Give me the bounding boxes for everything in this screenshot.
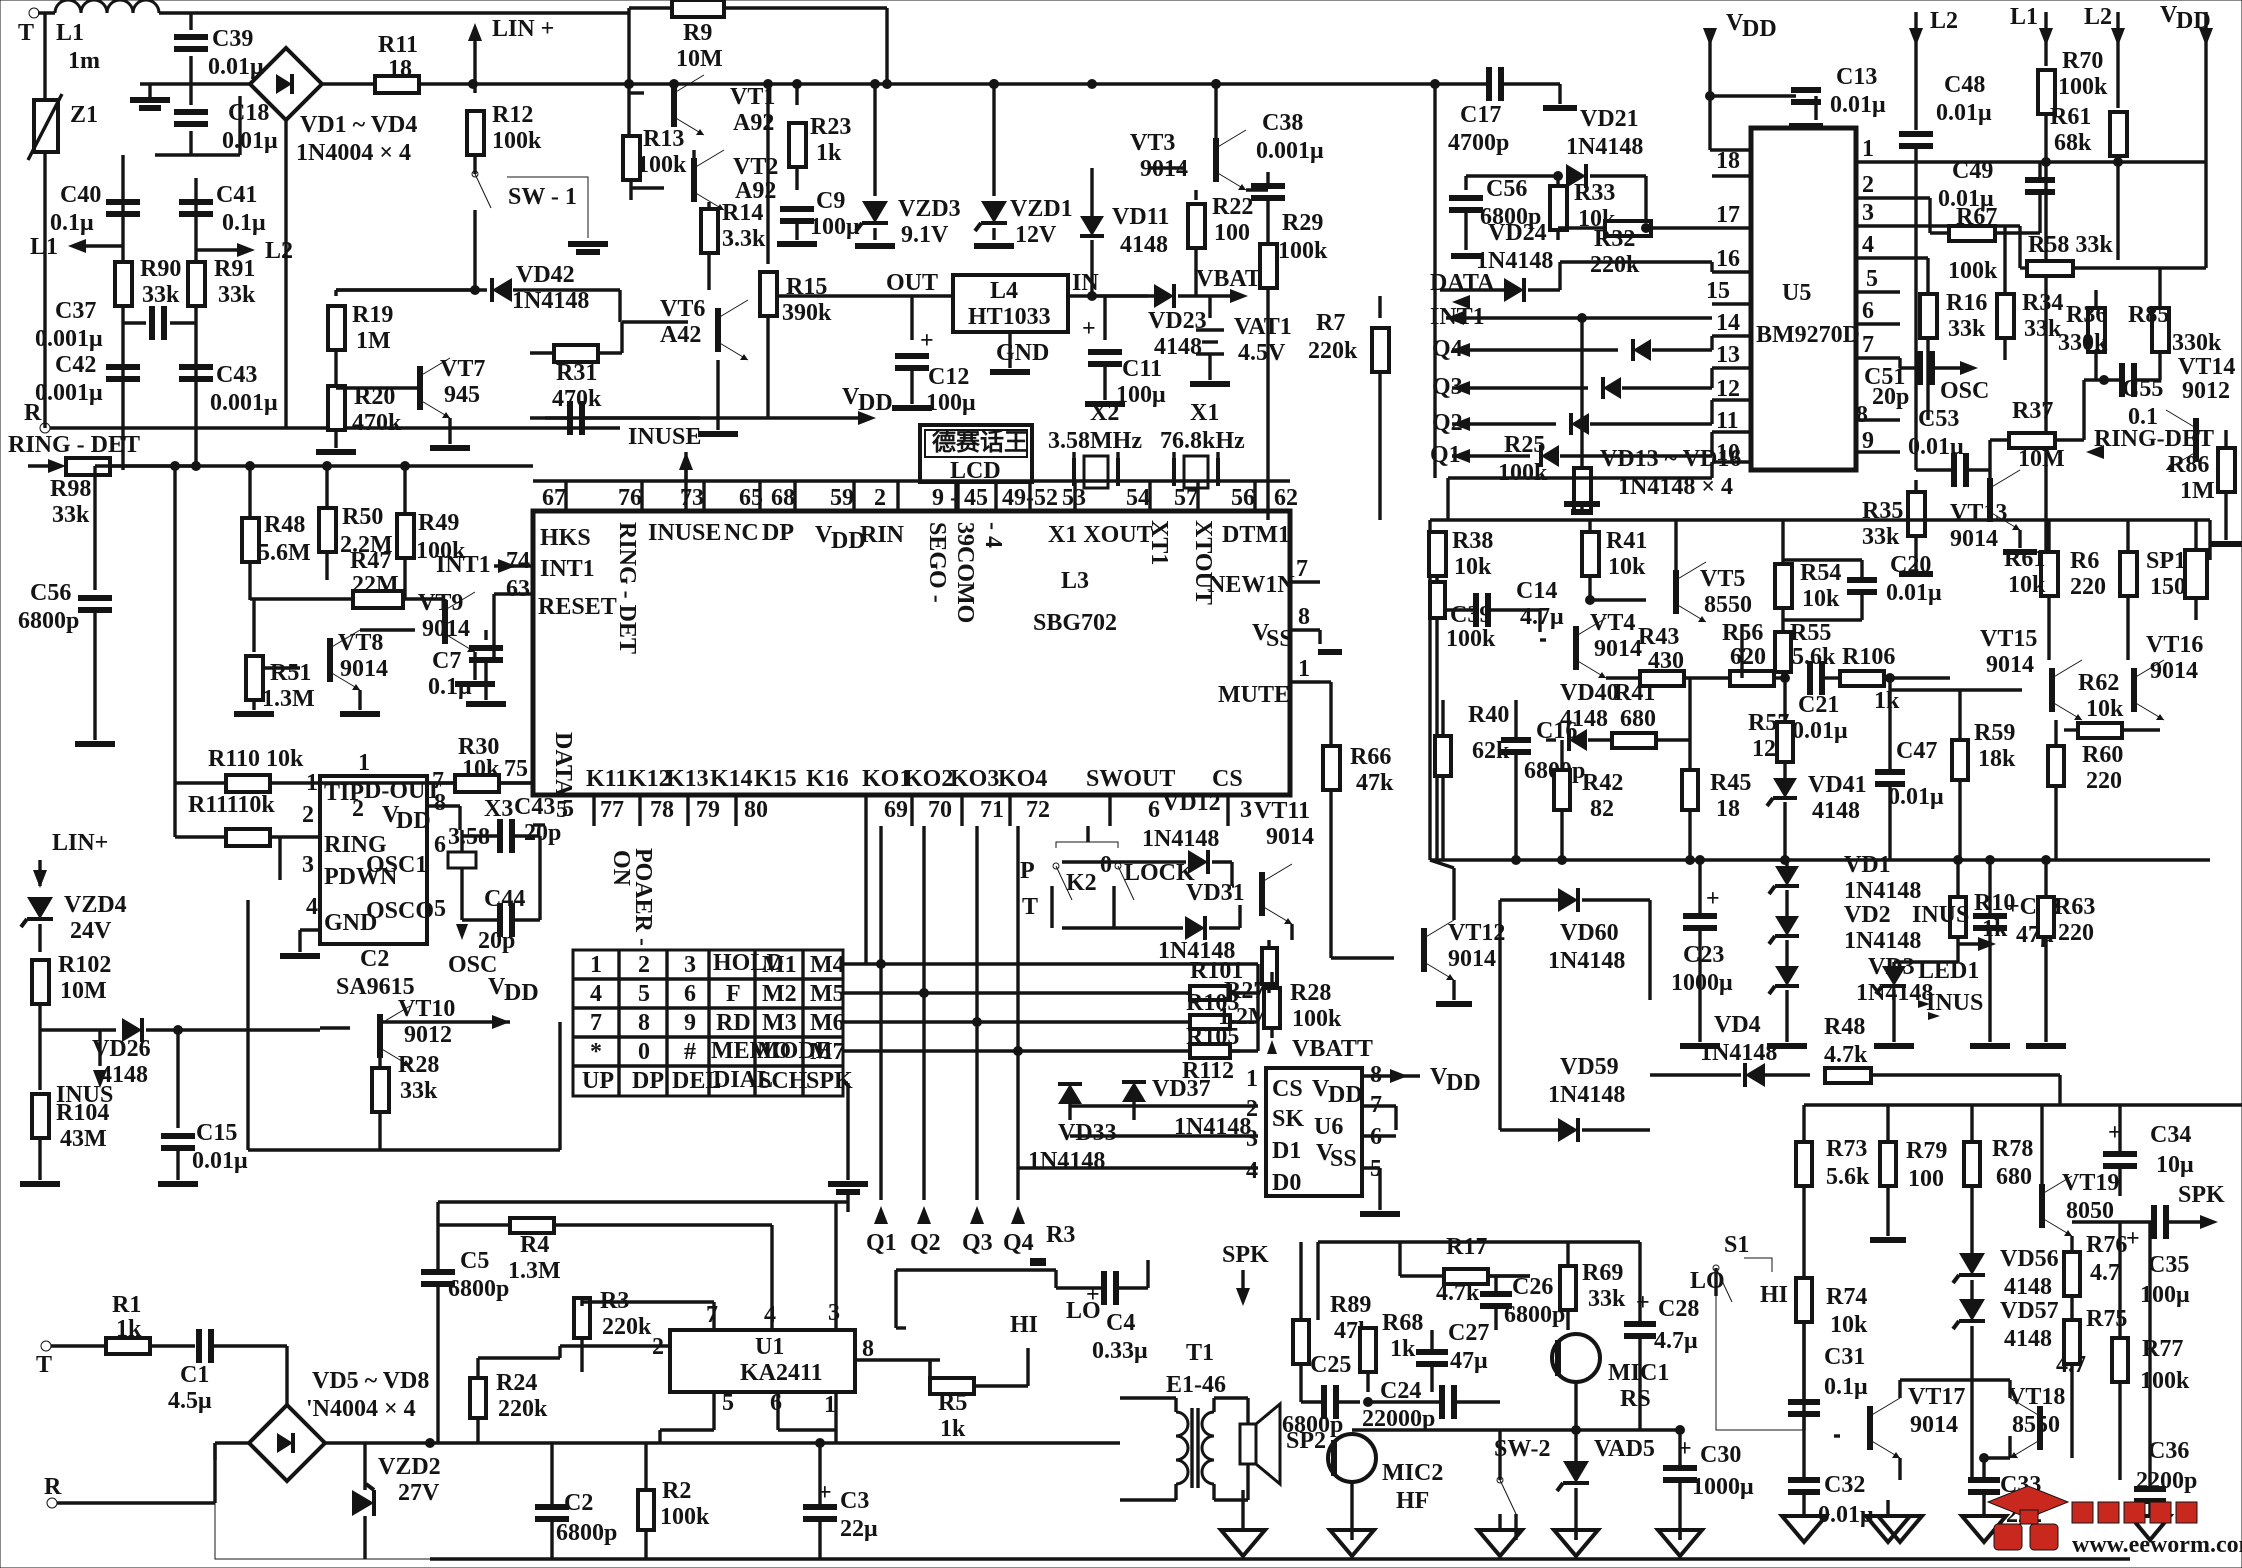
svg-text:100k: 100k (1498, 460, 1548, 486)
wire C25 row (1301, 1400, 1322, 1403)
svg-text:C42: C42 (55, 352, 96, 378)
wire U5 pin1 row (1900, 160, 2206, 163)
svg-text:VT2: VT2 (733, 154, 778, 180)
svg-text:VZD2: VZD2 (378, 1454, 441, 1480)
svg-text:220k: 220k (1590, 252, 1640, 278)
svg-text:INUS: INUS (1926, 990, 1983, 1016)
svg-text:70: 70 (928, 797, 952, 823)
svg-text:INT1: INT1 (540, 556, 595, 582)
resistor R98 (66, 458, 110, 475)
svg-text:5: 5 (434, 896, 446, 922)
svg-text:HKS: HKS (540, 525, 591, 551)
svg-text:F: F (726, 981, 741, 1007)
svg-text:T1: T1 (1186, 1340, 1214, 1366)
svg-text:0.01μ: 0.01μ (222, 128, 278, 154)
svg-text:- 4: - 4 (980, 522, 1006, 548)
svg-text:R11110k: R11110k (188, 792, 275, 818)
svg-text:R43: R43 (1638, 624, 1679, 650)
svg-text:SS: SS (1330, 1146, 1357, 1172)
svg-text:VT4: VT4 (1590, 610, 1635, 636)
svg-text:KA2411: KA2411 (740, 1360, 823, 1386)
capacitor C41 (179, 199, 213, 205)
svg-text:GND: GND (996, 340, 1049, 366)
resistor R13 (623, 136, 640, 180)
svg-text:C2: C2 (360, 946, 389, 972)
svg-text:39COMO: 39COMO (952, 522, 978, 623)
svg-text:9014: 9014 (1594, 636, 1642, 662)
svg-text:R73: R73 (1826, 1136, 1867, 1162)
svg-text:15: 15 (1706, 278, 1730, 304)
capacitor C44 (497, 903, 503, 937)
wire top-left T rail (38, 11, 55, 14)
bridge rectifier VD1~VD4 (250, 48, 322, 120)
arrow Q2 (917, 1206, 931, 1224)
svg-text:VD56: VD56 (2000, 1246, 2059, 1272)
svg-text:C56: C56 (1486, 176, 1527, 202)
svg-text:2: 2 (874, 485, 886, 511)
svg-text:5.6M: 5.6M (258, 540, 311, 566)
svg-text:C49: C49 (1952, 158, 1993, 184)
svg-text:VD2: VD2 (1844, 902, 1891, 928)
svg-text:71: 71 (980, 797, 1004, 823)
resistor SP1 (2185, 550, 2207, 598)
svg-text:DD: DD (504, 980, 539, 1006)
node T2 terminal (41, 1341, 51, 1351)
svg-text:56: 56 (1231, 485, 1255, 511)
svg-text:100k: 100k (492, 128, 542, 154)
svg-text:VD4: VD4 (1714, 1012, 1761, 1038)
svg-text:5: 5 (722, 1390, 734, 1416)
svg-text:20p: 20p (524, 820, 561, 846)
svg-text:1N4148: 1N4148 (1142, 826, 1219, 852)
svg-text:1000μ: 1000μ (1671, 970, 1733, 996)
resistor R35 (1914, 480, 1917, 492)
watermark text red (2072, 1502, 2197, 1523)
svg-text:C14: C14 (1516, 578, 1557, 604)
svg-text:VD33: VD33 (1058, 1120, 1117, 1146)
pin stubs U5 left (1712, 174, 1751, 177)
svg-text:SW-2: SW-2 (1494, 1436, 1550, 1462)
svg-text:X1: X1 (1190, 400, 1219, 426)
capacitor C56 left (93, 466, 96, 590)
svg-text:C21: C21 (1798, 692, 1839, 718)
svg-text:DD: DD (1328, 1082, 1363, 1108)
svg-text:33k: 33k (142, 282, 180, 308)
svg-text:73: 73 (680, 485, 704, 511)
diode VD11 (1090, 168, 1093, 216)
svg-text:C25: C25 (1310, 1352, 1351, 1378)
svg-text:R40: R40 (1468, 702, 1509, 728)
svg-text:VD1: VD1 (1844, 852, 1891, 878)
svg-text:A42: A42 (660, 322, 701, 348)
svg-text:4: 4 (1246, 1158, 1258, 1184)
arrow L2 right (196, 248, 238, 251)
svg-text:R: R (44, 1474, 62, 1500)
svg-text:INT1: INT1 (436, 552, 491, 578)
node T terminal (29, 8, 39, 18)
svg-text:R22: R22 (1212, 194, 1253, 220)
svg-text:DP: DP (762, 520, 794, 546)
wire bridge output (325, 1441, 430, 1444)
svg-text:DATA: DATA (550, 732, 576, 797)
transistor VT2 A92 (691, 158, 697, 202)
svg-text:100k: 100k (2058, 74, 2108, 100)
svg-text:1N4004 × 4: 1N4004 × 4 (296, 140, 411, 166)
svg-text:VZD1: VZD1 (1010, 196, 1073, 222)
svg-text:7: 7 (590, 1010, 602, 1036)
resistor R20 (328, 386, 345, 430)
svg-text:1.3M: 1.3M (508, 1258, 561, 1284)
wire matrix cross verticals (864, 826, 867, 964)
svg-text:2: 2 (302, 802, 314, 828)
svg-text:1: 1 (1246, 1066, 1258, 1092)
svg-text:+: + (920, 328, 934, 354)
svg-text:72: 72 (1026, 797, 1050, 823)
svg-text:VAD5: VAD5 (1594, 1436, 1655, 1462)
wire mic bottom rail (1352, 1428, 1680, 1431)
LCD box (920, 425, 1032, 482)
svg-text:R51: R51 (270, 660, 311, 686)
svg-text:330k: 330k (2058, 330, 2108, 356)
svg-text:1: 1 (358, 750, 370, 776)
svg-text:4.7μ: 4.7μ (1654, 1328, 1698, 1354)
resistor R19 (334, 290, 337, 296)
svg-text:Q1: Q1 (866, 1230, 897, 1256)
svg-text:9014: 9014 (2150, 658, 2198, 684)
svg-text:LO: LO (1690, 1268, 1725, 1294)
svg-text:X2: X2 (1090, 400, 1119, 426)
svg-text:R41: R41 (1614, 680, 1655, 706)
svg-text:RS: RS (1620, 1386, 1651, 1412)
svg-text:C56: C56 (30, 580, 71, 606)
wire OSC column (2082, 380, 2085, 440)
svg-text:33k: 33k (400, 1078, 438, 1104)
svg-text:HF: HF (1396, 1488, 1429, 1514)
svg-text:78: 78 (650, 797, 674, 823)
svg-text:VT10: VT10 (398, 996, 455, 1022)
svg-text:R9: R9 (683, 20, 712, 46)
capacitor C12 (910, 296, 913, 340)
svg-text:CS: CS (1272, 1076, 1303, 1102)
svg-text:10k: 10k (2008, 572, 2046, 598)
svg-text:VD13 ~ VD16: VD13 ~ VD16 (1600, 446, 1741, 472)
svg-text:67: 67 (542, 485, 566, 511)
svg-text:1: 1 (1862, 136, 1874, 162)
svg-text:77: 77 (600, 797, 624, 823)
svg-text:100k: 100k (1948, 258, 1998, 284)
svg-text:LIN +: LIN + (492, 16, 554, 42)
diode VD16 (1541, 445, 1559, 467)
svg-text:R89: R89 (1330, 1292, 1371, 1318)
svg-text:+: + (1086, 1282, 1100, 1308)
svg-text:1: 1 (1298, 656, 1310, 682)
op-amp U L3 SBG702 box (533, 511, 1290, 795)
varistor Z1 (43, 13, 46, 100)
svg-text:9014: 9014 (1910, 1412, 1958, 1438)
svg-text:R25: R25 (1504, 432, 1545, 458)
svg-text:3.58MHz: 3.58MHz (1048, 428, 1142, 454)
svg-text:R104: R104 (56, 1100, 109, 1126)
svg-text:SWOUT: SWOUT (1086, 766, 1175, 792)
svg-text:33k: 33k (218, 282, 256, 308)
svg-text:24V: 24V (70, 918, 112, 944)
transistor VT9 9014 (442, 600, 448, 644)
transistor VT8 9014 (327, 638, 333, 682)
svg-text:U1: U1 (755, 1334, 784, 1360)
svg-text:74: 74 (506, 548, 530, 574)
svg-text:R6: R6 (2070, 548, 2099, 574)
svg-text:HI: HI (1010, 1312, 1038, 1338)
svg-text:KO3: KO3 (950, 766, 999, 792)
svg-text:VT5: VT5 (1700, 566, 1745, 592)
resistor R91 (188, 262, 205, 306)
wire mic region top (1318, 1240, 1640, 1243)
svg-text:K12: K12 (628, 766, 671, 792)
svg-text:L3: L3 (1061, 568, 1089, 594)
keypad matrix table (573, 950, 843, 1096)
crystal X3 (448, 852, 476, 868)
transistor VT5 8550 (1673, 570, 1679, 614)
wire VDD row mid (545, 416, 860, 419)
resistor R104 (38, 1030, 41, 1090)
svg-text:18k: 18k (1978, 746, 2016, 772)
svg-text:150: 150 (2150, 574, 2186, 600)
svg-text:VT17: VT17 (1908, 1384, 1965, 1410)
svg-text:DTM1: DTM1 (1222, 522, 1290, 548)
svg-text:K13: K13 (666, 766, 709, 792)
wire C4 to SPK (1146, 1260, 1149, 1288)
capacitor C11 (1103, 296, 1106, 340)
svg-text:X3: X3 (484, 796, 513, 822)
op-amp C2 SA9615 box (320, 776, 427, 944)
op-amp U6 box (1266, 1068, 1362, 1196)
svg-text:9.1V: 9.1V (901, 222, 949, 248)
svg-text:C1: C1 (180, 1362, 209, 1388)
op-amp U1 KA2411 box (670, 1330, 855, 1392)
capacitor C43 (179, 364, 213, 370)
svg-text:13: 13 (1716, 342, 1740, 368)
svg-text:33k: 33k (1588, 1286, 1626, 1312)
svg-text:0.01μ: 0.01μ (1792, 718, 1848, 744)
svg-text:680: 680 (1996, 1164, 2032, 1190)
svg-text:C36: C36 (2148, 1438, 2189, 1464)
transistor VT6 A42 (715, 308, 721, 352)
svg-text:C3: C3 (840, 1488, 869, 1514)
svg-text:R32: R32 (1594, 226, 1635, 252)
svg-text:100: 100 (1214, 220, 1250, 246)
wire bridge left loop (213, 1443, 216, 1460)
svg-text:C30: C30 (1700, 1442, 1741, 1468)
wire VDD top arrow U5 (1708, 30, 1711, 150)
svg-text:1N4148: 1N4148 (1028, 1148, 1105, 1174)
resistor R16 (1920, 294, 1937, 338)
svg-text:14: 14 (1716, 310, 1740, 336)
capacitor C21 and R106 (1807, 661, 1813, 695)
svg-text:18: 18 (1716, 796, 1740, 822)
svg-text:22M: 22M (352, 572, 399, 598)
svg-text:1N4148: 1N4148 (1700, 1040, 1777, 1066)
op-amp U5 BM9270D box (1751, 128, 1856, 470)
svg-text:5: 5 (1866, 266, 1878, 292)
svg-text:8: 8 (1298, 604, 1310, 630)
svg-text:DD: DD (1446, 1070, 1481, 1096)
speaker SP2 (1240, 1424, 1256, 1464)
svg-text:C53: C53 (1918, 406, 1959, 432)
zener VZD3 (873, 84, 876, 196)
switch S1 lower wire (1714, 1268, 1717, 1296)
svg-text:1000μ: 1000μ (1692, 1474, 1754, 1500)
svg-text:5.6k: 5.6k (1826, 1164, 1870, 1190)
svg-text:INUS: INUS (1912, 902, 1969, 928)
svg-text:4.5V: 4.5V (1238, 340, 1286, 366)
svg-text:R33: R33 (1574, 180, 1615, 206)
resistor R42 (1554, 770, 1570, 810)
svg-text:100k: 100k (2140, 1368, 2190, 1394)
svg-text:R91: R91 (214, 256, 255, 282)
svg-text:R14: R14 (722, 200, 763, 226)
resistor R102 (32, 960, 49, 1004)
capacitor C15 (176, 1030, 179, 1128)
wire C5 top loop (438, 1200, 848, 1203)
svg-text:OSC: OSC (1940, 378, 1989, 404)
switch S1 wires (1744, 1258, 1772, 1272)
svg-text:VD37: VD37 (1152, 1076, 1211, 1102)
wire amp internals (1898, 1380, 1901, 1398)
svg-text:+: + (1082, 316, 1096, 342)
svg-text:SK: SK (1272, 1106, 1304, 1132)
svg-text:1k: 1k (940, 1416, 966, 1442)
svg-text:3: 3 (684, 952, 696, 978)
svg-text:POAER -: POAER - (630, 848, 656, 946)
svg-text:10M: 10M (676, 46, 723, 72)
svg-text:SPK: SPK (2178, 1182, 2225, 1208)
svg-text:C13: C13 (1836, 64, 1877, 90)
wire keypad row buses (843, 962, 1240, 965)
diode VD13 (1633, 339, 1651, 361)
svg-text:R86: R86 (2168, 452, 2209, 478)
svg-text:5.6k: 5.6k (1792, 644, 1836, 670)
svg-text:3.3k: 3.3k (722, 226, 766, 252)
svg-text:76: 76 (618, 485, 642, 511)
svg-text:10k: 10k (1802, 586, 1840, 612)
svg-text:德赛话王: 德赛话王 (932, 428, 1028, 456)
svg-text:C31: C31 (1824, 1344, 1865, 1370)
svg-text:R13: R13 (643, 126, 684, 152)
svg-text:12V: 12V (1015, 222, 1057, 248)
resistor R47 (353, 591, 403, 608)
svg-text:C44: C44 (484, 886, 525, 912)
resistor R28 100k (1264, 988, 1280, 1028)
svg-text:C11: C11 (1122, 356, 1162, 382)
svg-text:1M: 1M (356, 328, 391, 354)
svg-text:R47: R47 (350, 548, 391, 574)
svg-text:620: 620 (1730, 644, 1766, 670)
svg-text:1N4148: 1N4148 (512, 288, 589, 314)
wire mic vdd rail (1430, 1390, 1433, 1393)
svg-text:C39: C39 (212, 26, 253, 52)
capacitor C9 (780, 206, 814, 212)
svg-text:DD: DD (858, 390, 893, 416)
svg-text:Q4: Q4 (1003, 1230, 1034, 1256)
svg-text:VD5 ~ VD8: VD5 ~ VD8 (312, 1368, 429, 1394)
transistor VT3 9014 (1213, 138, 1219, 182)
arrow Q4 (1011, 1206, 1025, 1224)
svg-text:470k: 470k (352, 410, 402, 436)
svg-text:54: 54 (1126, 485, 1150, 511)
svg-text:4148: 4148 (1812, 798, 1860, 824)
svg-text:VT12: VT12 (1448, 920, 1505, 946)
svg-text:80: 80 (744, 797, 768, 823)
svg-text:16: 16 (1716, 246, 1740, 272)
svg-text:76.8kHz: 76.8kHz (1160, 428, 1245, 454)
svg-text:27V: 27V (398, 1480, 440, 1506)
wire VT17-VT18 join (1900, 1378, 2010, 1381)
svg-text:1: 1 (306, 770, 318, 796)
svg-text:43M: 43M (60, 1126, 107, 1152)
svg-text:+: + (1706, 886, 1720, 912)
svg-text:M4: M4 (810, 952, 845, 978)
svg-text:68: 68 (771, 485, 795, 511)
diode VD37 (1122, 1082, 1146, 1102)
svg-text:C28: C28 (1658, 1296, 1699, 1322)
svg-text:7: 7 (1862, 332, 1874, 358)
svg-text:GND: GND (324, 910, 377, 936)
svg-text:R3: R3 (1046, 1222, 1075, 1248)
svg-text:4700p: 4700p (1448, 130, 1509, 156)
svg-text:C43: C43 (216, 362, 257, 388)
wire U5 pin2 row (1900, 196, 1930, 199)
wire R24 stubs (476, 1358, 479, 1378)
transistor VT13 9014 (1987, 478, 1993, 522)
svg-text:M2: M2 (762, 981, 797, 1007)
svg-text:8: 8 (1856, 402, 1868, 428)
svg-text:K16: K16 (806, 766, 849, 792)
svg-text:0.001μ: 0.001μ (35, 380, 103, 406)
svg-text:10k: 10k (462, 756, 500, 782)
svg-text:R85: R85 (2128, 302, 2169, 328)
wire R56 join (1740, 624, 1743, 678)
svg-text:100k: 100k (1278, 238, 1328, 264)
svg-text:TIP: TIP (324, 780, 364, 806)
svg-text:R50: R50 (342, 504, 383, 530)
svg-text:R2: R2 (662, 1478, 691, 1504)
wire SA9615 gnd (300, 928, 320, 931)
svg-text:9012: 9012 (404, 1022, 452, 1048)
switch R3 body (1020, 1268, 1056, 1271)
svg-text:C37: C37 (55, 298, 96, 324)
svg-text:R42: R42 (1582, 770, 1623, 796)
resistor R15 (766, 84, 769, 264)
wire left block verticals (121, 155, 124, 470)
svg-text:C20: C20 (1890, 552, 1931, 578)
diode VD23 (1154, 284, 1174, 308)
svg-text:R4: R4 (520, 1232, 549, 1258)
diode VD42 (492, 278, 512, 302)
wire C51 OSC (1898, 358, 1901, 368)
svg-text:C26: C26 (1512, 1274, 1553, 1300)
capacitor C7 (484, 630, 487, 640)
svg-text:M7: M7 (810, 1039, 845, 1065)
svg-text:Q3: Q3 (962, 1230, 993, 1256)
svg-text:VT7: VT7 (440, 356, 485, 382)
svg-text:NC: NC (724, 520, 759, 546)
svg-text:L2: L2 (2084, 4, 2112, 30)
svg-text:10M: 10M (60, 978, 107, 1004)
svg-text:C7: C7 (432, 648, 461, 674)
svg-text:100k: 100k (660, 1504, 710, 1530)
svg-text:1k: 1k (816, 140, 842, 166)
svg-text:T: T (18, 20, 34, 46)
